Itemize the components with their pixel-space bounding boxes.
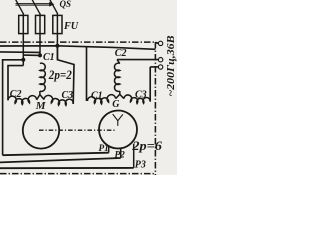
svg-text:FU: FU <box>63 21 79 32</box>
svg-text:2p=6: 2p=6 <box>131 139 163 153</box>
svg-text:P1: P1 <box>99 144 109 154</box>
svg-text:QS: QS <box>60 0 72 9</box>
svg-text:M: M <box>35 100 47 112</box>
svg-text:~200Гц,36В: ~200Гц,36В <box>165 36 177 97</box>
svg-text:C2: C2 <box>10 89 22 100</box>
svg-text:2p=2: 2p=2 <box>48 68 72 82</box>
svg-text:G: G <box>112 99 120 110</box>
svg-text:C1: C1 <box>91 90 103 101</box>
svg-text:C3: C3 <box>62 90 74 101</box>
svg-text:P3: P3 <box>135 160 146 171</box>
svg-text:C3: C3 <box>135 90 147 101</box>
svg-text:P2: P2 <box>115 151 126 161</box>
svg-text:C2: C2 <box>115 48 127 59</box>
svg-text:C1: C1 <box>43 52 55 63</box>
